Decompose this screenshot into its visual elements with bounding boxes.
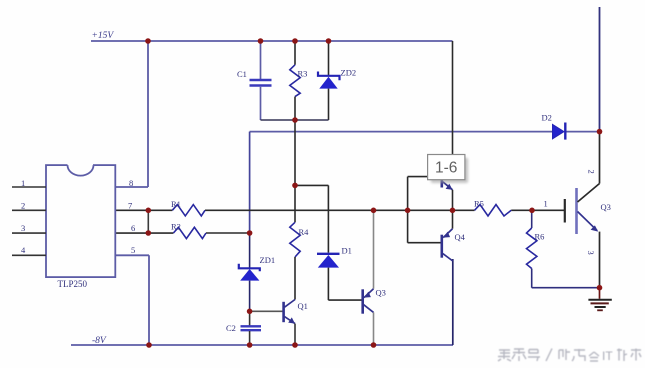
diode D2 bbox=[542, 113, 566, 140]
wire top collector stub x600 bbox=[599, 7, 601, 132]
zener ZD1 bbox=[239, 233, 275, 311]
capacitor C2 bbox=[226, 311, 261, 345]
pin 2 bbox=[12, 201, 46, 211]
svg-text:Q4: Q4 bbox=[455, 232, 466, 242]
svg-text:7: 7 bbox=[128, 201, 132, 211]
resistor R2 bbox=[171, 222, 206, 239]
wire vertical x250 rail to pin6 node bbox=[249, 132, 251, 233]
wire pin5 to -8V bbox=[115, 255, 149, 345]
svg-text:-8V: -8V bbox=[92, 336, 107, 346]
wire pin6 line bbox=[115, 232, 249, 234]
diode D1 bbox=[317, 246, 362, 301]
svg-text:C1: C1 bbox=[237, 69, 247, 79]
junction +15V/C1 bbox=[258, 38, 264, 44]
svg-text:R4: R4 bbox=[299, 227, 310, 237]
svg-text:C2: C2 bbox=[226, 323, 236, 333]
wire main drive line from pin7 bbox=[115, 209, 564, 211]
watermark bbox=[0, 0, 1, 1]
svg-text:TLP250: TLP250 bbox=[58, 279, 88, 289]
junction drive line / Q2 Q4 bases bbox=[405, 208, 411, 214]
svg-text:6: 6 bbox=[131, 223, 135, 233]
svg-text:2: 2 bbox=[21, 201, 25, 211]
junction pin6 tie bbox=[146, 230, 152, 236]
svg-text:3: 3 bbox=[21, 223, 25, 233]
svg-text:5: 5 bbox=[131, 245, 135, 255]
junction +15V/ZD2 bbox=[326, 38, 332, 44]
svg-text:1: 1 bbox=[544, 199, 548, 209]
resistor R6 bbox=[527, 210, 600, 287]
transistor Q4 (PNP) bbox=[442, 210, 466, 261]
svg-text:D2: D2 bbox=[542, 113, 552, 123]
svg-text:1-6: 1-6 bbox=[435, 160, 457, 177]
svg-text:D1: D1 bbox=[342, 246, 352, 256]
IC U1 TLP250 body bbox=[46, 164, 115, 277]
wire +15V to pin8 bbox=[115, 41, 148, 187]
svg-text:R2: R2 bbox=[171, 222, 181, 232]
ground bbox=[588, 288, 611, 311]
transistor Q2 (top of totem, partly hidden) bbox=[442, 166, 453, 210]
resistor R4 bbox=[290, 222, 309, 299]
svg-text:Q3: Q3 bbox=[601, 202, 611, 212]
svg-text:1: 1 bbox=[21, 178, 25, 188]
svg-text:Q3: Q3 bbox=[376, 288, 386, 298]
pin 3 bbox=[12, 223, 46, 233]
junction R4 top / D1 tap bbox=[292, 183, 298, 189]
wire tap to D1 bbox=[295, 185, 328, 252]
junction ZD1/C2/Q1 base bbox=[247, 309, 253, 315]
transistor Q1 bbox=[284, 300, 308, 346]
svg-text:Q1: Q1 bbox=[298, 301, 308, 311]
junction R6/Q3 emitter/ground bbox=[597, 285, 603, 291]
svg-text:R5: R5 bbox=[474, 199, 484, 209]
+15V rail wire bbox=[91, 40, 453, 42]
node rail y131 (mid rail with D2) bbox=[250, 131, 600, 133]
zener ZD2 bbox=[318, 41, 356, 120]
wire pin7-pin6 tie bbox=[147, 210, 149, 233]
junction -8V/Q1 emitter bbox=[292, 342, 298, 348]
junction +15V/pin8 feed bbox=[145, 38, 151, 44]
svg-text:3: 3 bbox=[586, 251, 596, 255]
junction pin7 tie bbox=[146, 208, 152, 214]
transistor Q3 (output, IGBT style) bbox=[544, 132, 611, 288]
junction D2 cathode / Q3 collector bbox=[597, 129, 603, 135]
wire R3 node down to R4 bbox=[294, 120, 296, 222]
wire bottom of C1/R3/ZD2 group bbox=[261, 119, 329, 121]
junction pin6 / ZD1 branch bbox=[247, 230, 253, 236]
junction -8V/Q3 collector bbox=[371, 342, 377, 348]
svg-text:R3: R3 bbox=[298, 69, 308, 79]
junction -8V/pin5 bbox=[146, 342, 152, 348]
svg-text:ZD2: ZD2 bbox=[341, 68, 357, 78]
svg-text:8: 8 bbox=[129, 178, 133, 188]
junction R5/R6/Q3 base bbox=[529, 208, 535, 214]
svg-text:R1: R1 bbox=[171, 199, 181, 209]
svg-text:IT: IT bbox=[602, 349, 613, 363]
svg-text:+15V: +15V bbox=[92, 31, 115, 41]
junction R3/group bottom wire bbox=[292, 117, 298, 123]
pin 4 bbox=[12, 245, 46, 255]
wire C2 node to Q1 base bbox=[250, 310, 283, 312]
resistor R5 bbox=[474, 199, 511, 217]
resistor R1 bbox=[171, 199, 205, 216]
resistor R3 bbox=[290, 41, 308, 120]
-8V rail wire bbox=[71, 344, 453, 346]
junction drive line / Q3 emitter bbox=[371, 208, 377, 214]
junction +15V/R3 bbox=[292, 38, 298, 44]
svg-text:R6: R6 bbox=[535, 232, 545, 242]
base ladder for Q2/Q4 bbox=[408, 177, 441, 243]
junction -8V/C2 bbox=[247, 342, 253, 348]
pin 1 bbox=[12, 178, 46, 188]
junction drive line / totem emitters bbox=[450, 208, 456, 214]
wire Q2 collector to +15V bbox=[452, 41, 454, 168]
wire Q4 collector down bbox=[452, 259, 454, 345]
svg-text:ZD1: ZD1 bbox=[260, 255, 276, 265]
svg-text:2: 2 bbox=[587, 170, 597, 174]
transistor Q3 (small PNP) bbox=[363, 210, 386, 345]
capacitor C1 bbox=[237, 41, 272, 120]
annotation box 1-6 bbox=[428, 155, 468, 184]
